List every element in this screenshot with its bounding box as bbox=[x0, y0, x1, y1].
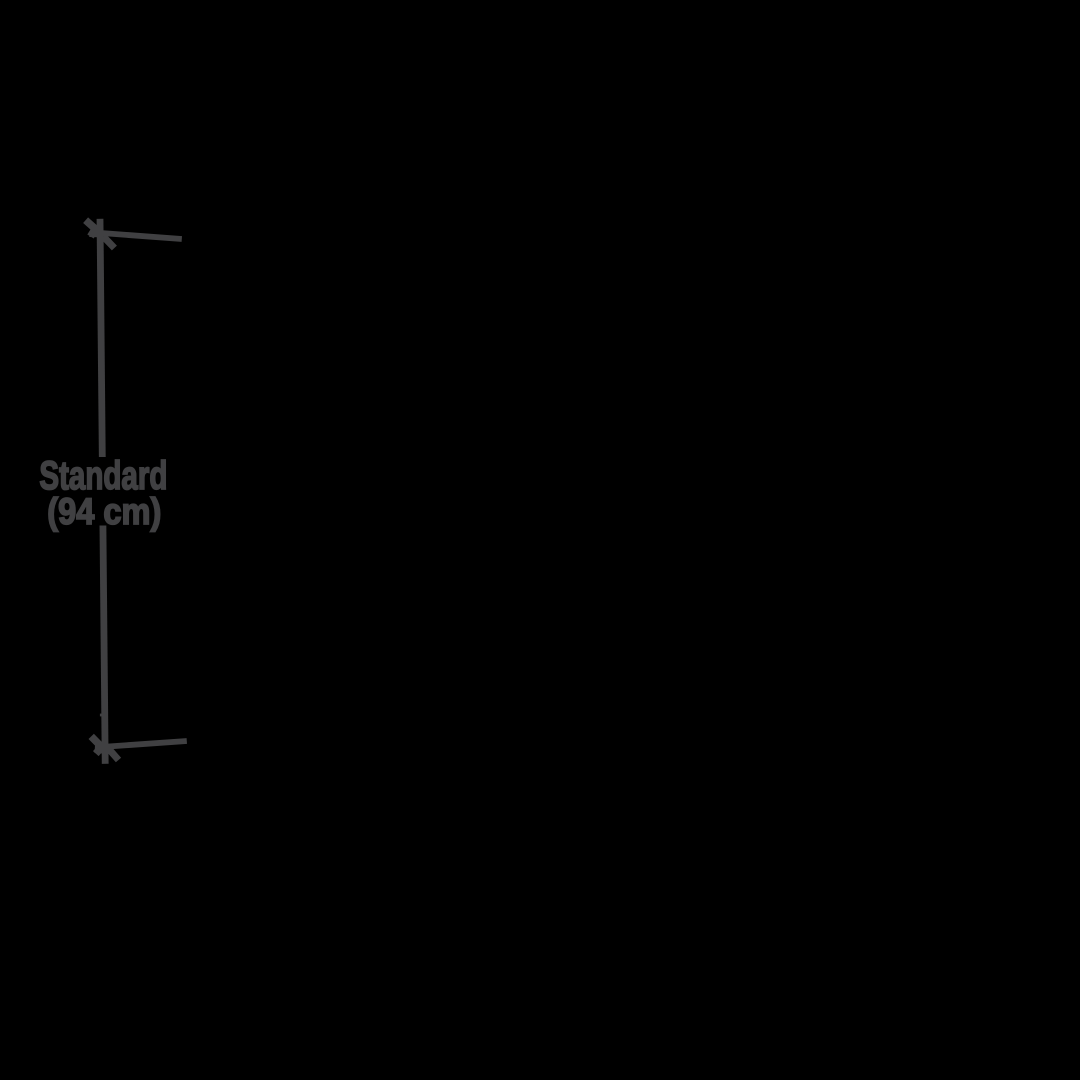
top arrowhead right barb bbox=[103, 237, 114, 248]
bottom arrowhead junction fill bbox=[95, 746, 103, 754]
svg-text:(94 cm): (94 cm) bbox=[47, 491, 161, 532]
bottom leader line bbox=[107, 741, 187, 747]
top arrowhead junction fill bbox=[89, 230, 105, 242]
stray sketch speck bbox=[100, 714, 102, 717]
dimension line (vertical, upper segment) bbox=[100, 219, 102, 457]
top arrowhead left barb bbox=[86, 220, 96, 236]
bottom arrowhead left barb bbox=[91, 736, 101, 753]
top leader line bbox=[101, 233, 182, 239]
bottom arrowhead right barb bbox=[107, 746, 119, 760]
dimension line (vertical, lower segment) bbox=[103, 526, 105, 764]
